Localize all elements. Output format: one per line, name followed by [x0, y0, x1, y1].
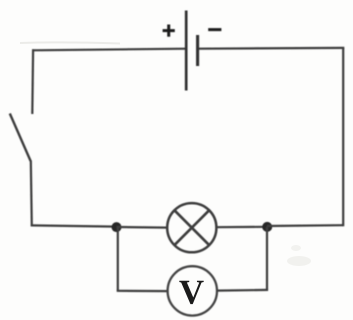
wire bottom-left horizontal (corner to node A)	[31, 225, 117, 226]
voltmeter V letter	[179, 281, 203, 304]
wire voltmeter branch right vertical	[266, 227, 268, 290]
wire voltmeter branch left horizontal	[117, 290, 168, 293]
battery minus label	[208, 28, 221, 31]
battery plus label	[163, 25, 175, 37]
faint scan smudge	[287, 256, 311, 266]
wire left vertical upper (corner down to switch contact)	[31, 49, 34, 114]
wire top-right horizontal (corner to battery negative)	[198, 47, 345, 50]
wire voltmeter branch right horizontal	[217, 289, 268, 292]
lamp L1 (circle)	[167, 203, 216, 252]
node B (right junction dot)	[262, 222, 272, 232]
wire right vertical (top-right corner down)	[342, 48, 344, 226]
wire node A to lamp	[117, 226, 168, 229]
node A (left junction dot)	[112, 222, 122, 232]
faint scan ghost above top-left wire	[20, 42, 120, 43]
wire lamp to node B	[216, 226, 267, 229]
switch S1 (open blade)	[10, 114, 31, 162]
wire node B to bottom-right corner	[267, 224, 343, 227]
wire left vertical lower (switch to bottom-left corner)	[31, 161, 32, 227]
lamp L1 cross stroke 1	[174, 210, 210, 246]
battery B1 positive plate (long)	[185, 11, 188, 91]
battery B1 negative plate (short)	[196, 35, 199, 66]
wire top-left (battery positive to top-left corner)	[33, 49, 186, 51]
lamp L1 cross stroke 2	[174, 210, 210, 246]
voltmeter V1 (circle)	[168, 266, 217, 315]
wire voltmeter branch left vertical	[117, 227, 119, 291]
